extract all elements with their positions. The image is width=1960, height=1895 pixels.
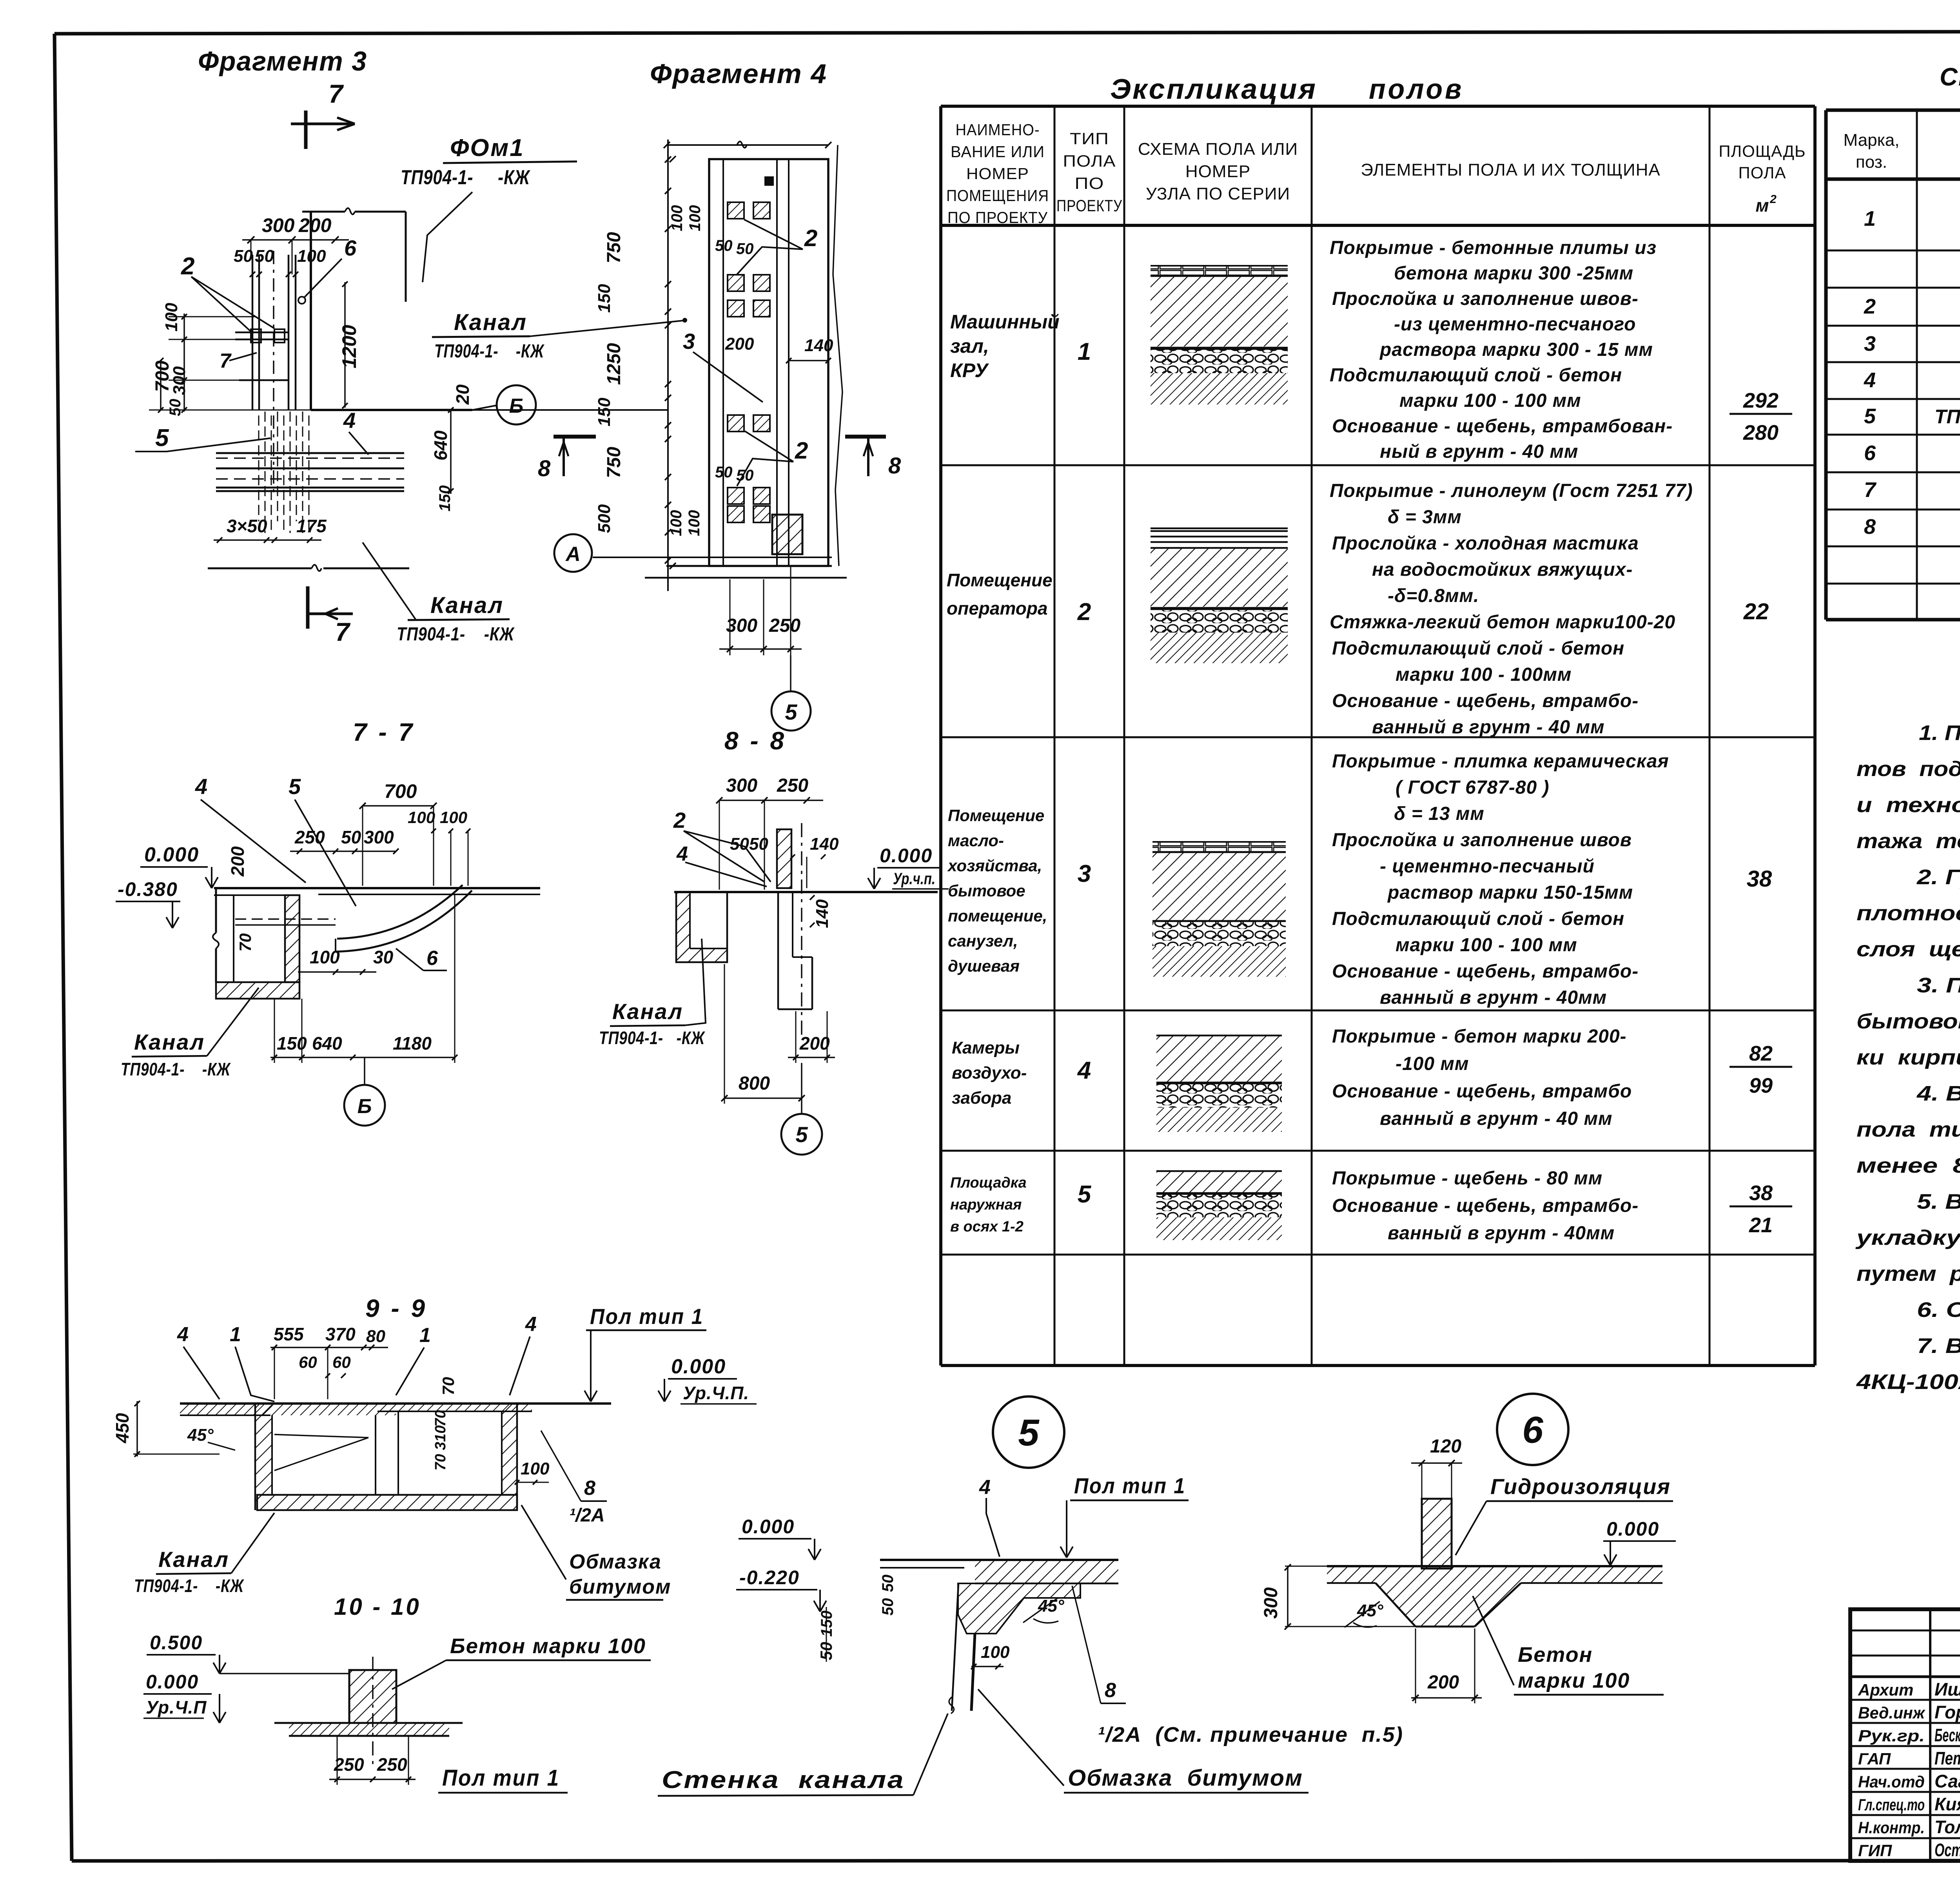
section 8-8 wall hatch above floor [777,829,791,888]
svg-text:0.000: 0.000 [1606,1518,1659,1540]
svg-text:Пол тип 1: Пол тип 1 [590,1304,704,1329]
svg-text:ФОм1: ФОм1 [450,134,524,161]
svg-text:5: 5 [1864,404,1876,428]
svg-text:ТП904-1- -КЖ: ТП904-1- -КЖ [599,1028,705,1048]
svg-text:ванный в грунт - 40 мм: ванный в грунт - 40 мм [1372,717,1604,738]
svg-text:масло-: масло- [948,831,1004,850]
svg-text:Прослойка и заполнение швов-: Прослойка и заполнение швов- [1332,288,1639,309]
svg-text:ПОЛА: ПОЛА [1739,163,1786,182]
svg-text:0.000: 0.000 [880,845,933,867]
fragment3 left dim chain labels [162,303,181,332]
section 9-9 dims 70 310 70 rotated [432,1410,449,1427]
svg-text:марки 100 - 100 мм: марки 100 - 100 мм [1396,935,1577,956]
svg-text:( ГОСТ 6787-80 ): ( ГОСТ 6787-80 ) [1396,777,1549,798]
svg-text:ГАП: ГАП [1858,1750,1891,1768]
svg-text:Толоченко: Толоченко [1935,1817,1960,1837]
sheet frame [54,31,1960,34]
svg-text:250: 250 [377,1754,407,1775]
fragment3 A axis circle [554,534,592,572]
svg-text:ПЛОЩАДЬ: ПЛОЩАДЬ [1719,142,1806,160]
svg-text:1: 1 [1078,338,1091,365]
svg-text:50: 50 [167,399,184,417]
svg-text:Камеры: Камеры [952,1038,1020,1057]
svg-text:ванный в грунт - 40мм: ванный в грунт - 40мм [1380,987,1607,1008]
explication floor scheme diagram row5 [1156,1170,1282,1172]
svg-text:Ищенко: Ищенко [1935,1679,1960,1699]
svg-text:60: 60 [332,1353,351,1371]
svg-text:140: 140 [813,899,832,928]
section 9-9 inner leader lines [274,1434,368,1438]
svg-text:слоя щебня или гравия круп: слоя щебня или гравия крупностью 40-60мм [1857,938,1960,961]
fragment3 bottom boundary line [208,568,312,569]
svg-text:250: 250 [777,775,808,796]
svg-text:и технологических разводок,: и технологических разводок, а также посл… [1857,793,1960,817]
svg-text:300: 300 [1261,1587,1281,1619]
fragment3 canal band horizontals [216,452,404,454]
svg-text:Прослойка и заполнение швов: Прослойка и заполнение швов [1332,830,1632,850]
svg-text:250: 250 [334,1754,364,1775]
svg-text:70: 70 [439,1377,457,1395]
fragment4 embed pads column A [728,202,744,219]
svg-text:4КЦ-100А , в знаменателе - д: 4КЦ-100А , в знаменателе - для 5КЦ-100А … [1856,1370,1960,1394]
svg-text:УЗЛА ПО СЕРИИ: УЗЛА ПО СЕРИИ [1146,184,1290,203]
svg-text:на водостойких вяжущих-: на водостойких вяжущих- [1372,559,1633,580]
section 9-9 dim 450 rotated [112,1413,132,1443]
svg-text:Саакьянц: Саакьянц [1935,1771,1960,1791]
svg-text:Ур.Ч.П: Ур.Ч.П [146,1697,207,1717]
svg-text:Обмазка: Обмазка [569,1550,662,1573]
svg-text:ПОЛА: ПОЛА [1063,152,1116,170]
svg-text:250: 250 [294,827,325,847]
svg-text:100: 100 [521,1459,550,1478]
svg-text:100: 100 [440,808,467,827]
svg-text:зал,: зал, [950,335,989,357]
fragment4 inner verticals [722,159,724,566]
svg-text:200: 200 [227,846,248,877]
svg-text:Основание - щебень, втрамбо-: Основание - щебень, втрамбо- [1332,961,1639,982]
svg-text:310: 310 [432,1425,449,1450]
svg-text:6: 6 [344,236,357,260]
svg-text:8: 8 [1864,515,1876,539]
svg-text:Петровский: Петровский [1935,1748,1960,1768]
svg-text:50: 50 [255,247,274,266]
svg-text:марки 100 - 100 мм: марки 100 - 100 мм [1399,390,1581,411]
section 9-9 pit partitions [375,1415,376,1495]
svg-text:-100 мм: -100 мм [1396,1054,1469,1074]
fragment3 main wall vertical [310,212,312,410]
svg-text:2: 2 [1769,193,1777,206]
svg-text:НАИМЕНО-: НАИМЕНО- [956,121,1040,139]
title block outer [1850,1609,1960,1861]
svg-text:Подстилающий слой - бетон: Подстилающий слой - бетон [1332,638,1624,659]
svg-text:забора: забора [952,1088,1011,1108]
svg-text:6: 6 [1864,441,1876,465]
svg-text:ТП904-1-: ТП904-1- [1935,406,1960,428]
svg-text:8: 8 [584,1477,595,1500]
svg-text:Канал: Канал [430,593,504,618]
svg-text:НОМЕР: НОМЕР [1185,162,1250,181]
fragment3 floor corner line [311,409,472,411]
svg-text:ЭЛЕМЕНТЫ ПОЛА И ИХ ТОЛЩИНА: ЭЛЕМЕНТЫ ПОЛА И ИХ ТОЛЩИНА [1361,160,1661,180]
explication floor scheme diagram row2 [1151,528,1288,530]
svg-text:80: 80 [366,1327,385,1346]
node5 floor top line [880,1559,1118,1561]
svg-text:Покрытие - плитка керамическая: Покрытие - плитка керамическая [1332,751,1669,772]
svg-text:175: 175 [296,516,327,536]
svg-text:Б: Б [509,395,524,417]
node5 hatched screed band [975,1560,1118,1583]
svg-text:- цементно-песчаный: - цементно-песчаный [1380,856,1595,877]
svg-text:¹/2А (См. примечание п.5): ¹/2А (См. примечание п.5) [1098,1723,1403,1746]
svg-text:битумом: битумом [569,1576,671,1598]
svg-text:70: 70 [432,1410,449,1427]
svg-text:ТИП: ТИП [1070,129,1109,148]
svg-text:ки кирпичных перегородок по: ки кирпичных перегородок по узлу 6 . [1857,1046,1960,1069]
svg-text:санузел,: санузел, [948,932,1018,950]
svg-text:плотности скелета до 1,6 Т/м: плотности скелета до 1,6 Т/м³ с втрамбов… [1857,901,1960,925]
svg-text:тов под оборудование, канало: тов под оборудование, каналов, сантехнич… [1857,757,1960,781]
svg-text:1250: 1250 [604,343,624,385]
svg-text:5050: 5050 [730,834,768,854]
svg-text:4: 4 [1077,1057,1091,1084]
fragment4 embed pads column B [753,202,770,219]
section 9-9 pit structure [255,1404,272,1504]
node6 concrete bell [1376,1583,1521,1627]
fragment4 bottom hatched block [772,515,802,554]
svg-text:Канал: Канал [134,1030,205,1054]
node5 circle [993,1396,1064,1468]
svg-text:640: 640 [430,430,451,461]
svg-text:Покрытие - линолеум (Гост 7251: Покрытие - линолеум (Гост 7251 77) [1330,481,1693,501]
svg-text:ТП904-1- -КЖ: ТП904-1- -КЖ [434,341,544,362]
fragment4 break line right [833,145,842,566]
svg-text:Канал: Канал [454,310,527,335]
svg-text:100: 100 [668,510,685,536]
svg-text:300: 300 [262,214,295,236]
svg-text:70: 70 [236,933,254,952]
svg-text:20: 20 [452,384,473,405]
svg-text:хозяйства,: хозяйства, [947,856,1042,875]
svg-text:менее 800 кг/см² .: менее 800 кг/см² . [1857,1154,1960,1177]
svg-text:5: 5 [785,700,797,724]
svg-text:8 - 8: 8 - 8 [724,727,786,755]
explication floor scheme diagram row1 [1151,266,1288,276]
section 8-8 right duct below floor [777,892,779,1009]
fragment3 right dim chain [667,140,669,591]
svg-text:-0.220: -0.220 [739,1567,800,1589]
svg-text:4. В качестве заполнителя д: 4. В качестве заполнителя для бетона в п… [1916,1082,1960,1105]
svg-text:5: 5 [1018,1412,1040,1454]
svg-text:¹/2А: ¹/2А [569,1505,605,1526]
svg-text:0.000: 0.000 [144,843,199,866]
svg-text:СХЕМА ПОЛА ИЛИ: СХЕМА ПОЛА ИЛИ [1138,140,1298,159]
svg-text:4: 4 [177,1323,189,1346]
svg-text:5. В бетонной подготовке по: 5. В бетонной подготовке пола тип 1 пред… [1917,1190,1960,1213]
svg-text:700: 700 [384,780,417,802]
svg-text:60: 60 [299,1353,317,1371]
section 10-10 floor band [274,1722,463,1724]
svg-text:КРУ: КРУ [950,359,989,381]
svg-text:0.000: 0.000 [671,1355,726,1378]
svg-text:800: 800 [739,1073,770,1094]
svg-text:450: 450 [112,1413,132,1443]
svg-text:ный в грунт - 40 мм: ный в грунт - 40 мм [1380,441,1578,462]
svg-text:4: 4 [979,1476,991,1499]
svg-text:Покрытие - щебень - 80 мм: Покрытие - щебень - 80 мм [1332,1168,1602,1189]
svg-text:ПРОЕКТУ: ПРОЕКТУ [1056,196,1122,215]
svg-text:100: 100 [686,510,703,536]
section 10-10 concrete block [349,1670,396,1723]
svg-text:Покрытие - бетон марки 200-: Покрытие - бетон марки 200- [1332,1026,1627,1047]
svg-text:200: 200 [1427,1672,1459,1693]
section 8-8 floor line [674,891,938,893]
svg-text:Основание - щебень, втрамбован: Основание - щебень, втрамбован- [1332,416,1673,437]
svg-text:Обмазка битумом: Обмазка битумом [1068,1765,1303,1791]
svg-text:82: 82 [1749,1042,1773,1065]
svg-text:50: 50 [715,464,733,481]
svg-text:38: 38 [1749,1181,1773,1205]
svg-text:-0.380: -0.380 [118,878,178,900]
svg-text:Гидроизоляция: Гидроизоляция [1490,1474,1671,1499]
fragment3 foundation outline top [302,211,345,213]
svg-text:ГИП: ГИП [1858,1841,1892,1860]
svg-text:150: 150 [595,397,614,426]
svg-text:Архит: Архит [1858,1681,1913,1699]
svg-text:душевая: душевая [948,957,1020,975]
svg-text:в осях 1-2: в осях 1-2 [950,1219,1024,1235]
svg-text:Бескоровайный: Бескоровайный [1935,1725,1960,1745]
section 8-8 left canal box [676,892,727,962]
svg-text:путем разрезки сетки №1 по: путем разрезки сетки №1 по Гост 8478-81. [1857,1262,1960,1286]
svg-text:6: 6 [1522,1409,1543,1451]
node6 circle [1497,1394,1568,1465]
explication table grid [939,106,942,1365]
fragment4 node circle 5 [771,691,811,731]
section 7-7 floor lines [214,887,540,889]
svg-text:50: 50 [879,1575,897,1592]
fragment3 pilaster center dashline [273,251,274,498]
fragment3 bottom section marker 7 [306,586,310,629]
section 10-10 centerline [372,1657,374,1768]
section 7-7 B axis circle [364,1057,365,1085]
svg-text:150: 150 [595,284,614,313]
section 7-7 dim 200 rotated [227,846,248,877]
svg-text:9 - 9: 9 - 9 [365,1294,427,1322]
svg-text:555: 555 [274,1324,304,1344]
svg-text:0.000: 0.000 [146,1671,199,1693]
svg-text:2: 2 [1864,295,1876,318]
svg-text:δ = 3мм: δ = 3мм [1388,507,1462,528]
svg-text:120: 120 [1430,1436,1461,1457]
svg-text:Экспликация: Экспликация [1110,74,1317,105]
svg-text:2: 2 [181,253,194,280]
svg-text:Кияшко: Кияшко [1935,1794,1960,1814]
svg-text:Стенка канала: Стенка канала [662,1766,905,1793]
svg-text:Марка,: Марка, [1844,131,1900,150]
svg-text:30: 30 [373,947,394,967]
svg-text:750: 750 [604,447,624,478]
svg-text:ПО: ПО [1075,174,1104,192]
svg-text:50: 50 [341,827,361,847]
svg-text:750: 750 [604,232,624,263]
fragment4 left extension ticks [670,156,676,162]
fragment4 base lines [666,565,832,567]
section 9-9 floor slab lines [180,1402,611,1405]
svg-text:3: 3 [1078,860,1091,887]
svg-text:Основание - щебень, втрамбо: Основание - щебень, втрамбо [1332,1081,1632,1102]
svg-text:ПО ПРОЕКТУ: ПО ПРОЕКТУ [947,209,1048,227]
svg-text:50: 50 [736,240,754,258]
svg-text:помещение,: помещение, [948,907,1047,925]
svg-text:3: 3 [1864,332,1876,355]
svg-text:ТП904-1- -КЖ: ТП904-1- -КЖ [397,624,515,645]
svg-text:Машинный: Машинный [950,311,1060,333]
svg-text:1: 1 [230,1323,241,1346]
svg-text:поз.: поз. [1856,152,1887,172]
svg-text:2: 2 [804,225,817,251]
svg-text:Стяжка-легкий бетон марки100-2: Стяжка-легкий бетон марки100-20 [1330,612,1675,633]
node6 waterproofing column [1422,1499,1452,1569]
svg-text:50: 50 [234,247,253,266]
svg-text:100: 100 [310,947,340,967]
node6 floor band [1327,1565,1662,1567]
svg-text:7. В экспликации полов площ: 7. В экспликации полов площадь пола в чи… [1917,1334,1960,1358]
fragment3 dim 20 640 150 right [452,384,473,405]
svg-text:5: 5 [155,424,169,452]
svg-text:Н.контр.: Н.контр. [1858,1819,1925,1837]
svg-text:4: 4 [1864,368,1876,392]
section 9-9 dim 70 rotated [439,1377,457,1395]
svg-text:100: 100 [297,247,326,266]
svg-text:1: 1 [419,1324,431,1347]
section 8-8 node circle 5 [801,1063,802,1114]
svg-text:6. Сечения 9-9; 10-10; узел 5: 6. Сечения 9-9; 10-10; узел 5 замаркиров… [1917,1298,1960,1322]
svg-text:А: А [565,543,581,566]
svg-text:8: 8 [538,456,551,481]
svg-text:укладку сетки шириной 500мм: укладку сетки шириной 500мм (см сечение … [1855,1226,1960,1249]
svg-text:6: 6 [426,947,438,970]
svg-text:500: 500 [595,504,614,533]
svg-text:3. При выполнении подстилающ: 3. При выполнении подстилающего слоя пол… [1917,974,1960,997]
svg-text:2. Грунт основания под полы: 2. Грунт основания под полы уплотнить с … [1916,865,1960,889]
svg-text:5: 5 [1078,1181,1092,1208]
title block signature grid [1929,1609,1931,1861]
svg-text:наружная: наружная [950,1197,1022,1213]
svg-text:Ур.ч.п.: Ур.ч.п. [893,869,935,888]
svg-text:8: 8 [1105,1679,1116,1702]
svg-text:140: 140 [810,834,839,854]
svg-text:292: 292 [1743,389,1779,412]
fragment3 pilaster cross member [235,332,289,334]
svg-text:Горская: Горская [1935,1702,1960,1723]
svg-text:1: 1 [1864,207,1876,230]
fragment4 black square mark [764,176,774,186]
svg-text:0.000: 0.000 [742,1516,795,1538]
svg-text:50: 50 [715,237,733,254]
svg-text:300: 300 [364,827,394,847]
svg-text:140: 140 [804,336,833,355]
svg-text:Бетон: Бетон [1518,1643,1593,1667]
node5 dims 50 150 rotated [879,1575,897,1592]
svg-text:100: 100 [408,808,435,827]
svg-text:50: 50 [879,1598,897,1616]
svg-text:Канал: Канал [158,1547,229,1572]
svg-text:Помещение: Помещение [947,570,1053,590]
svg-text:воздухо-: воздухо- [952,1063,1027,1083]
svg-text:ванный в грунт - 40 мм: ванный в грунт - 40 мм [1380,1108,1612,1129]
svg-text:бытовом помещении предусмотр: бытовом помещении предусмотреть утолщени… [1857,1010,1960,1033]
svg-text:100: 100 [686,205,704,231]
svg-text:150: 150 [277,1033,307,1054]
svg-text:Пол тип 1: Пол тип 1 [1074,1473,1186,1498]
svg-text:38: 38 [1747,866,1772,892]
svg-text:1180: 1180 [393,1033,432,1054]
svg-text:Фрагмент 4: Фрагмент 4 [650,58,827,89]
svg-text:ванный в грунт - 40мм: ванный в грунт - 40мм [1388,1223,1615,1244]
svg-text:370: 370 [325,1324,356,1344]
svg-text:280: 280 [1743,421,1779,444]
svg-text:99: 99 [1749,1074,1773,1097]
fragment3 section marker 7 top [304,111,308,149]
svg-text:45°: 45° [1357,1601,1383,1620]
svg-text:70: 70 [432,1454,449,1471]
svg-text:150: 150 [436,485,454,511]
svg-text:4: 4 [525,1313,537,1336]
svg-text:Канал: Канал [612,999,683,1024]
svg-text:Б: Б [358,1095,372,1118]
svg-text:10 - 10: 10 - 10 [334,1594,421,1620]
svg-text:Бетон марки 100: Бетон марки 100 [450,1634,646,1658]
svg-text:100: 100 [668,205,686,231]
svg-text:250: 250 [769,615,800,636]
svg-text:22: 22 [1743,599,1769,624]
svg-text:ПОМЕЩЕНИЯ: ПОМЕЩЕНИЯ [946,187,1049,205]
section 7-7 dashed prosloika [235,918,336,920]
svg-text:300: 300 [726,775,757,796]
svg-text:200: 200 [298,214,332,236]
svg-text:ВАНИЕ ИЛИ: ВАНИЕ ИЛИ [951,143,1045,161]
fragment4 outer rectangle [709,159,828,566]
svg-text:45°: 45° [187,1425,214,1445]
svg-text:-из цементно-песчаного: -из цементно-песчаного [1394,314,1636,335]
svg-text:Фрагмент 3: Фрагмент 3 [198,46,367,76]
fragment4 section 8 marker [845,435,886,439]
svg-text:640: 640 [312,1033,342,1054]
svg-text:21: 21 [1749,1213,1773,1237]
svg-text:ТП904-1- -КЖ: ТП904-1- -КЖ [401,166,530,189]
fragment3 hatch cluster vertical dashed lines [258,415,260,521]
svg-text:Основание - щебень, втрамбо-: Основание - щебень, втрамбо- [1332,1195,1639,1216]
svg-text:Основание - щебень, втрамбо-: Основание - щебень, втрамбо- [1332,691,1639,711]
svg-text:оператора: оператора [947,598,1048,618]
svg-text:Спецификация закладных издел: Спецификация закладных изделий в полу [1940,63,1960,91]
svg-text:Помещение: Помещение [948,806,1044,825]
svg-text:5: 5 [289,774,301,799]
svg-text:марки 100: марки 100 [1518,1669,1630,1692]
explication floor scheme diagram row4 [1156,1035,1282,1037]
svg-text:7 - 7: 7 - 7 [353,718,415,746]
svg-text:7: 7 [335,617,351,646]
fragment4 top dim line [667,144,828,146]
svg-text:7: 7 [328,79,344,108]
svg-text:200: 200 [725,334,754,354]
svg-text:ТП904-1- -КЖ: ТП904-1- -КЖ [121,1059,231,1079]
svg-text:бытовое: бытовое [948,881,1025,900]
svg-text:45°: 45° [1038,1596,1064,1616]
section 7-7 drain pipe curves [337,885,463,939]
svg-text:Нач.отд: Нач.отд [1858,1772,1925,1791]
svg-text:Вед.инж: Вед.инж [1858,1704,1926,1722]
